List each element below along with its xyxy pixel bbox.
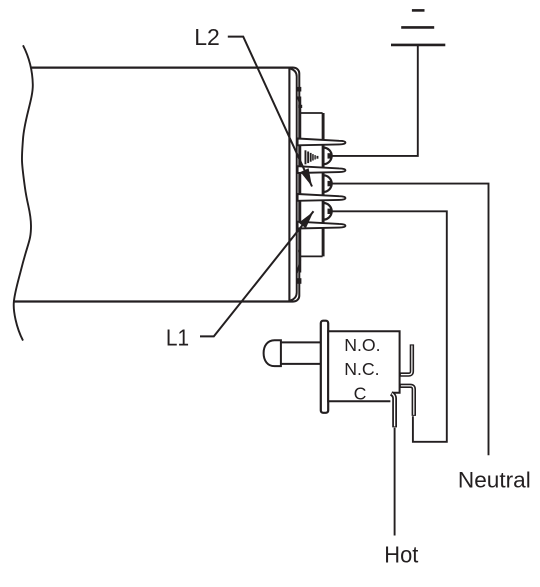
ballast break line (wavy left edge)	[14, 45, 33, 340]
svg-text:Hot: Hot	[384, 542, 419, 568]
plate taper bottom	[297, 260, 301, 274]
terminal C (hollow blade)	[391, 393, 394, 427]
svg-text:L1: L1	[166, 324, 189, 350]
wire: terminal 3 to switch middle terminal	[331, 211, 447, 441]
terminal bump 3	[323, 203, 331, 220]
plate taper top	[298, 97, 301, 107]
door switch body	[328, 331, 399, 401]
clip bottom	[297, 278, 302, 284]
terminal N.C. (hollow blade)	[400, 344, 412, 374]
connector plate inner contour	[291, 69, 297, 301]
strain relief icon (wedge bars)	[305, 150, 319, 164]
terminal bump 2	[323, 175, 331, 192]
leader L2	[228, 37, 312, 187]
svg-text:N.O.: N.O.	[344, 335, 380, 355]
connector block right edge (bold)	[322, 113, 325, 256]
door switch flange	[321, 321, 328, 413]
terminal dot 1	[328, 153, 333, 158]
clip nub lower	[298, 250, 301, 252]
terminal dot 2	[328, 181, 333, 186]
door switch plunger cap	[264, 340, 281, 366]
terminal middle (hollow blade)	[400, 386, 414, 416]
ballast top edge	[32, 66, 294, 68]
svg-text:N.C.: N.C.	[344, 359, 379, 379]
ballast bottom edge	[13, 300, 294, 302]
pin 3	[298, 194, 346, 201]
svg-text:L2: L2	[194, 24, 220, 50]
clip nub upper	[298, 105, 302, 108]
terminal bump 1	[323, 148, 331, 165]
door switch plunger shaft	[281, 342, 321, 364]
wire: terminal 2 to neutral	[331, 184, 489, 456]
connector block bottom edge	[300, 255, 322, 257]
pin 4	[298, 222, 346, 229]
pin 1	[298, 139, 346, 146]
svg-text:C: C	[354, 383, 367, 403]
ballast right edge outer contour	[294, 68, 300, 302]
pin 2	[298, 166, 346, 173]
arrowhead L1	[299, 212, 314, 229]
wire: terminal 1 to ground	[331, 45, 418, 156]
leader L1	[200, 211, 314, 336]
clip top	[298, 87, 302, 92]
wire hot	[394, 428, 396, 536]
terminal dot 3	[328, 209, 333, 214]
svg-text:Neutral: Neutral	[458, 468, 531, 493]
ballast right edge inner line	[288, 68, 290, 302]
connector block top edge	[300, 112, 322, 114]
ground symbol	[391, 10, 445, 45]
connector plate strip	[300, 97, 302, 273]
arrowhead L2	[300, 168, 312, 186]
